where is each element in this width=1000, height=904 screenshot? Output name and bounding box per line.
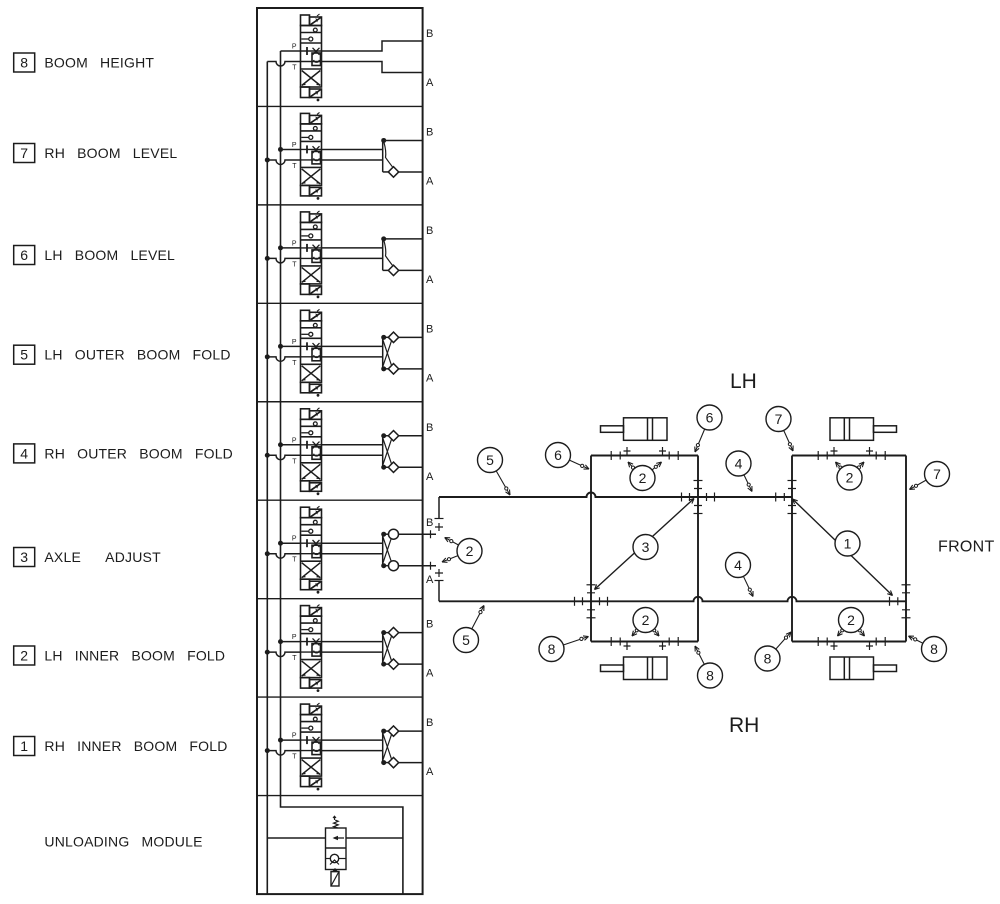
svg-text:8: 8 — [20, 55, 28, 71]
work port connector section 3 — [322, 529, 437, 571]
hose label circle 8 — [909, 636, 947, 662]
RH boom vertical 3 — [791, 456, 793, 642]
svg-text:AXLE ADJUST: AXLE ADJUST — [44, 549, 161, 565]
svg-text:T: T — [292, 360, 297, 367]
work port connector section 5 — [322, 332, 423, 374]
item label 1 — [14, 737, 228, 756]
manifold section divider — [257, 105, 423, 107]
svg-text:A: A — [426, 574, 434, 586]
hose label circle 2 — [632, 608, 659, 637]
svg-text:7: 7 — [933, 466, 941, 482]
RH-side top line with cylinder ports — [792, 455, 906, 457]
manifold section divider — [257, 401, 423, 403]
work port connector section 6 — [322, 236, 423, 275]
svg-text:T: T — [292, 65, 297, 72]
item label 4 — [14, 444, 233, 463]
valve section 2 — [265, 605, 322, 692]
valve section 6 — [265, 211, 322, 298]
manifold section divider — [257, 302, 423, 304]
svg-text:RH BOOM LEVEL: RH BOOM LEVEL — [44, 145, 177, 161]
svg-text:8: 8 — [706, 668, 714, 684]
hose label circle 7 — [910, 462, 950, 490]
svg-text:T: T — [292, 557, 297, 564]
manifold section divider — [257, 795, 423, 797]
work port connector section 2 — [322, 627, 423, 669]
svg-text:4: 4 — [735, 456, 743, 472]
svg-text:P: P — [292, 240, 297, 247]
manifold section divider — [257, 696, 423, 698]
svg-text:B: B — [426, 225, 433, 237]
svg-text:LH OUTER BOOM FOLD: LH OUTER BOOM FOLD — [44, 347, 230, 363]
svg-text:4: 4 — [20, 445, 28, 461]
hose label circle 2 — [442, 538, 482, 564]
svg-text:A: A — [426, 766, 434, 778]
svg-text:B: B — [426, 619, 433, 631]
cylinder RH front top — [830, 418, 897, 441]
svg-text:A: A — [426, 175, 434, 187]
svg-text:6: 6 — [20, 247, 28, 263]
junction bottom pipe / vertical 1 — [575, 585, 608, 618]
svg-text:UNLOADING MODULE: UNLOADING MODULE — [44, 834, 202, 850]
hose label circle 3 — [633, 535, 658, 560]
work port connector section 4 — [322, 431, 423, 473]
hose label circle 8 — [695, 646, 723, 688]
svg-text:1: 1 — [20, 738, 28, 754]
svg-text:A: A — [426, 274, 434, 286]
svg-text:8: 8 — [764, 651, 772, 667]
svg-text:T: T — [292, 655, 297, 662]
svg-text:3: 3 — [642, 539, 650, 555]
valve section 8 — [267, 14, 321, 101]
tank return rail — [266, 62, 268, 895]
svg-text:RH: RH — [729, 714, 759, 737]
svg-text:B: B — [426, 28, 433, 40]
valve section 7 — [265, 112, 322, 199]
svg-text:P: P — [292, 634, 297, 641]
pressure rail — [281, 51, 403, 894]
svg-text:6: 6 — [706, 410, 714, 426]
svg-text:7: 7 — [20, 145, 28, 161]
svg-text:8: 8 — [548, 641, 556, 657]
hose label circle 1 — [835, 531, 860, 556]
svg-text:RH OUTER BOOM FOLD: RH OUTER BOOM FOLD — [44, 445, 233, 461]
hose label circle 2 — [628, 462, 662, 491]
svg-text:A: A — [426, 471, 434, 483]
svg-text:P: P — [292, 142, 297, 149]
svg-text:7: 7 — [775, 411, 783, 427]
valve section 3 — [265, 506, 322, 593]
svg-text:3: 3 — [20, 549, 28, 565]
svg-text:LH: LH — [730, 370, 757, 393]
svg-text:2: 2 — [639, 470, 647, 486]
LH boom vertical 1 — [590, 456, 592, 642]
manifold section divider — [257, 598, 423, 600]
svg-text:A: A — [426, 668, 434, 680]
junction bottom pipe end at vertical 4 — [890, 585, 911, 618]
svg-text:2: 2 — [20, 648, 28, 664]
hose label circle 2 — [836, 462, 865, 490]
cylinder RH bottom — [830, 657, 897, 680]
svg-text:A: A — [426, 77, 434, 89]
svg-text:P: P — [292, 437, 297, 444]
cylinder LH bottom — [601, 657, 668, 680]
junction top pipe end at vertical 3 — [776, 481, 797, 514]
svg-text:T: T — [292, 754, 297, 761]
hose label circle 4 — [726, 553, 754, 597]
manifold section divider — [257, 204, 423, 206]
svg-text:FRONT: FRONT — [938, 539, 995, 556]
svg-text:B: B — [426, 126, 433, 138]
svg-text:LH BOOM LEVEL: LH BOOM LEVEL — [44, 247, 175, 263]
hose label circle 5 — [478, 448, 511, 496]
hose label circle 7 — [766, 407, 793, 452]
svg-text:P: P — [292, 44, 297, 51]
junction top pipe / vertical 2 — [682, 481, 715, 514]
svg-text:6: 6 — [554, 447, 562, 463]
item label 7 — [14, 144, 178, 163]
svg-text:A: A — [426, 372, 434, 384]
svg-text:P: P — [292, 339, 297, 346]
svg-text:T: T — [292, 458, 297, 465]
LH outer wing top line with cylinder ports — [591, 455, 698, 457]
svg-text:8: 8 — [930, 641, 938, 657]
valve section 4 — [265, 408, 322, 495]
hose label circle 5 — [454, 606, 485, 653]
svg-text:2: 2 — [642, 612, 650, 628]
svg-text:T: T — [292, 163, 297, 170]
hose 3 diagonal — [595, 499, 695, 590]
RH bottom box line with cylinder ports — [792, 641, 906, 643]
svg-text:2: 2 — [846, 470, 854, 486]
RH boom vertical 4 — [905, 456, 907, 642]
svg-text:4: 4 — [734, 557, 742, 573]
work port connector section 8 — [322, 41, 423, 73]
svg-text:5: 5 — [462, 632, 470, 648]
work port connector section 1 — [322, 726, 423, 768]
item label 3 — [14, 548, 161, 567]
svg-text:RH INNER BOOM FOLD: RH INNER BOOM FOLD — [44, 738, 227, 754]
axle adjust left box top pipe (hose 5 top) — [439, 493, 792, 498]
hose label circle 6 — [546, 443, 590, 470]
valve section 1 — [265, 703, 322, 790]
svg-text:P: P — [292, 733, 297, 740]
item label 2 — [14, 646, 226, 665]
hose 1 diagonal — [793, 499, 893, 596]
svg-text:P: P — [292, 536, 297, 543]
item label 5 — [14, 345, 231, 364]
hose label circle 2 — [838, 608, 865, 637]
valve manifold outline — [257, 8, 423, 894]
svg-text:B: B — [426, 323, 433, 335]
svg-text:2: 2 — [847, 612, 855, 628]
svg-text:B: B — [426, 717, 433, 729]
svg-text:B: B — [426, 422, 433, 434]
LH bottom box line with cylinder ports — [591, 641, 698, 643]
manifold section divider — [257, 499, 423, 501]
cylinder LH outer top — [601, 418, 668, 441]
valve section 5 — [265, 309, 322, 396]
svg-text:1: 1 — [844, 536, 852, 552]
bottom pipe (hose 5/4 bottom) — [439, 597, 906, 602]
hose label circle 8 — [755, 632, 791, 671]
item label 8 — [14, 53, 155, 72]
svg-text:BOOM HEIGHT: BOOM HEIGHT — [44, 55, 154, 71]
svg-text:5: 5 — [486, 452, 494, 468]
svg-text:B: B — [426, 517, 433, 529]
hose label circle 6 — [695, 405, 722, 452]
left box left edge with couplers — [438, 497, 440, 601]
unloading module valve — [267, 816, 403, 886]
svg-text:2: 2 — [466, 543, 474, 559]
hose label circle 8 — [539, 636, 589, 662]
hose label circle 4 — [726, 451, 752, 492]
work port connector section 7 — [322, 138, 423, 177]
item label 6 — [14, 246, 175, 265]
svg-text:T: T — [292, 261, 297, 268]
svg-text:LH INNER BOOM FOLD: LH INNER BOOM FOLD — [44, 648, 225, 664]
svg-text:5: 5 — [20, 347, 28, 363]
LH boom vertical 2 — [697, 456, 699, 642]
